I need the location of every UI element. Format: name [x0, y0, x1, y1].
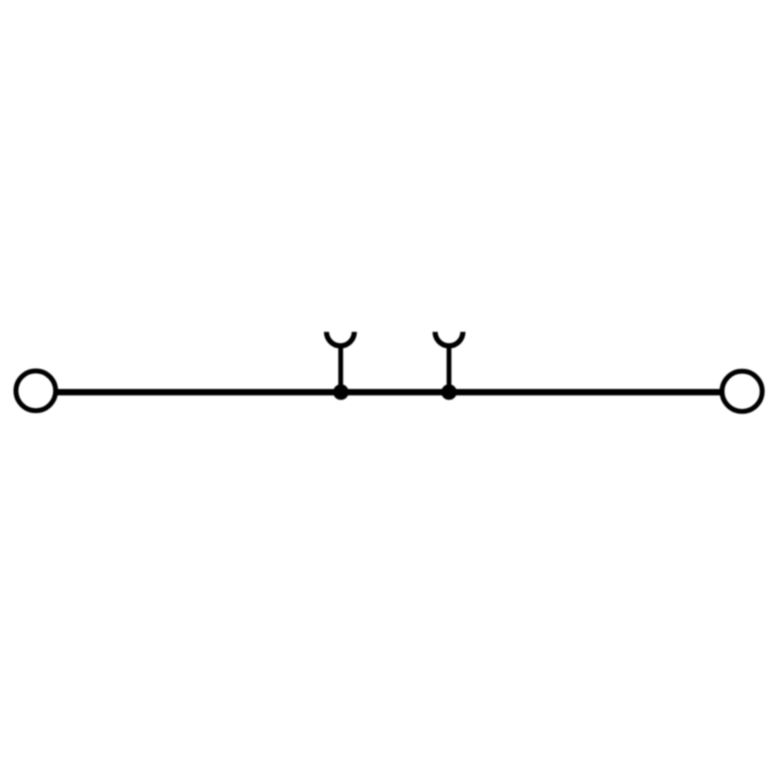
test socket stem 2 — [447, 347, 452, 392]
test socket stem 1 — [338, 347, 343, 392]
test socket cup 1 — [327, 332, 355, 346]
terminal circle right (clamp point 2) — [722, 371, 762, 411]
test socket cup 2 — [435, 332, 463, 346]
node junction dot 1 — [333, 384, 349, 400]
terminal circle left (clamp point 1) — [16, 371, 56, 411]
wire: main horizontal conductor — [56, 389, 721, 395]
node junction dot 2 — [441, 384, 457, 400]
